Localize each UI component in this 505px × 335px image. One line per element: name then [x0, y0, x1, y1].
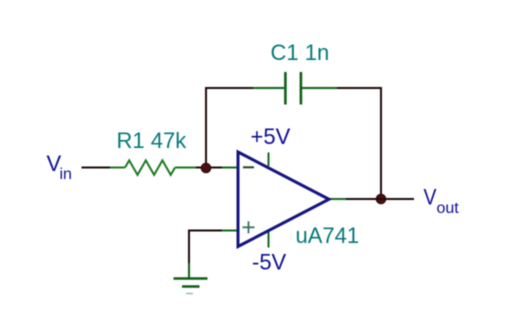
wire feedback left (node A up and right to C1): [206, 88, 253, 168]
svg-text:R1 47k: R1 47k: [117, 128, 188, 153]
ground: [174, 263, 208, 294]
wire feedback right (C1 down to output node B): [337, 88, 381, 198]
svg-text:+5V: +5V: [251, 124, 291, 149]
svg-text:C1 1n: C1 1n: [271, 40, 330, 65]
node A junction: [201, 163, 211, 173]
resistor R1: [110, 160, 196, 175]
op-amp U1 non-inverting input marker: [243, 221, 255, 233]
capacitor C1: [253, 72, 337, 105]
svg-text:out: out: [437, 200, 460, 217]
wire R1 to node A: [196, 167, 222, 169]
svg-text:in: in: [60, 166, 72, 183]
op-amp U1 pin stubs: [222, 153, 346, 248]
wire Vin to R1: [82, 167, 111, 169]
svg-text:-5V: -5V: [252, 250, 287, 275]
op-amp U1 inverting input marker: [243, 166, 254, 168]
wire non-inverting input to ground: [189, 231, 222, 264]
op-amp U1 triangle: [238, 152, 329, 247]
svg-text:V: V: [424, 185, 437, 210]
node B junction: [376, 194, 386, 204]
wire output to Vout: [346, 198, 414, 200]
svg-text:uA741: uA741: [296, 223, 360, 248]
